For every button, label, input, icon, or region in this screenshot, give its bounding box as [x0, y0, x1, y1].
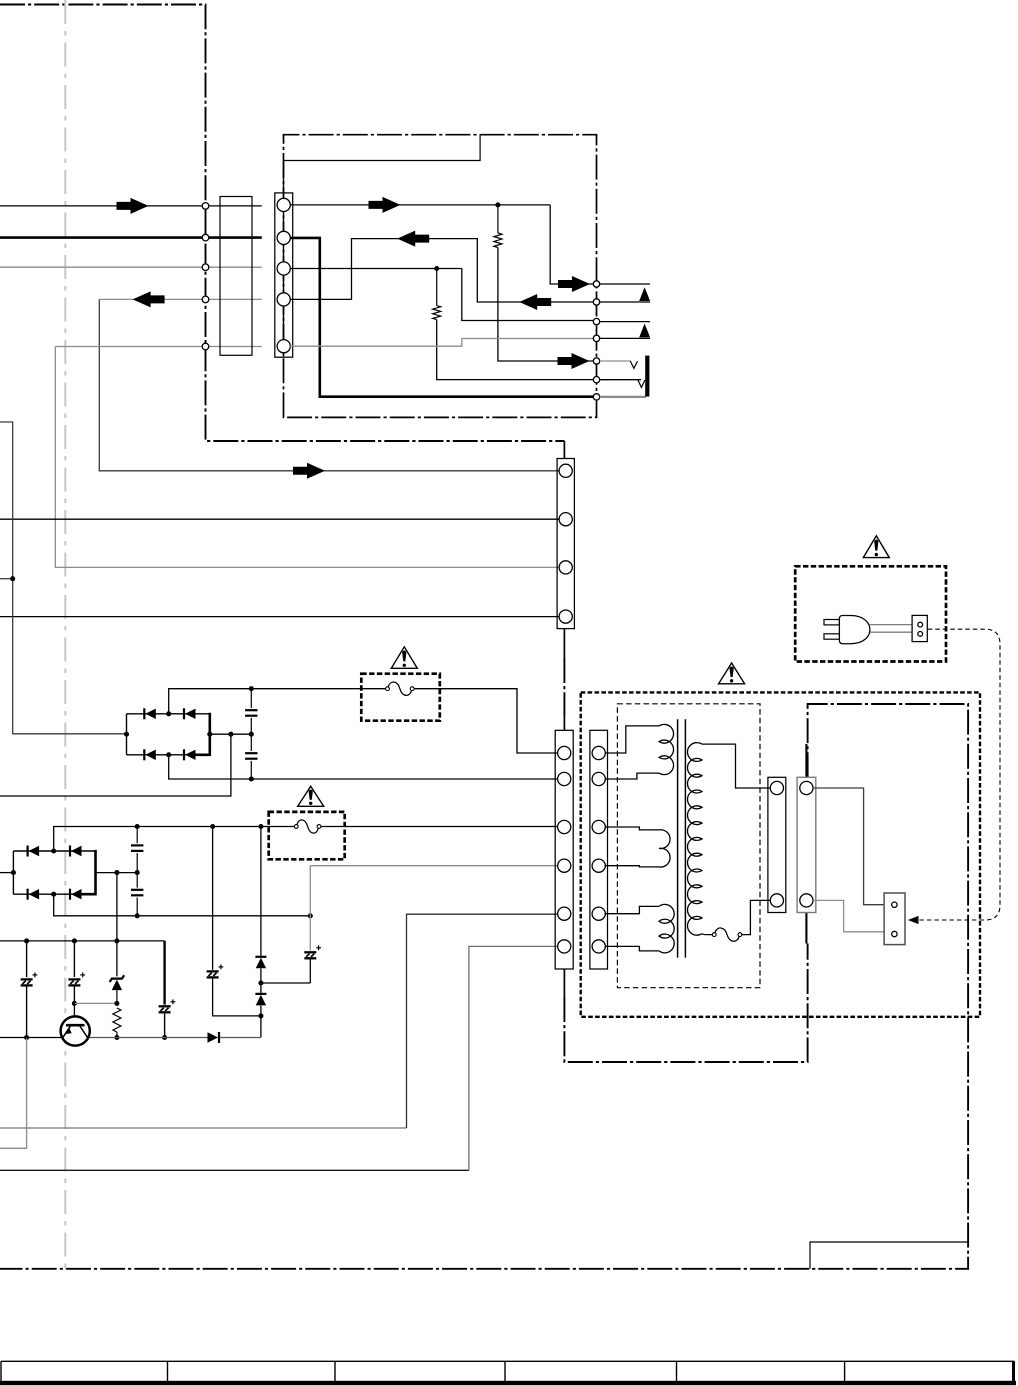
junction bottom rail x26: [24, 1035, 29, 1040]
wire thermal fuse to C2: [742, 900, 771, 934]
connector B pin 5: [592, 907, 605, 920]
junction C1 top: [249, 686, 254, 691]
diode D1c: [143, 749, 145, 760]
transformer T1 primary winding 1: [659, 724, 674, 774]
wire P1 riser and top to A5: [407, 914, 561, 1128]
wire c7 out: [600, 396, 646, 398]
table divider x676: [676, 1361, 678, 1381]
arrowhead on dashed wire: [908, 916, 919, 924]
connector B pin 2: [592, 772, 605, 785]
diode D1b: [183, 708, 185, 719]
wire P2 bottom segment: [0, 1169, 469, 1171]
capacitor C2: [245, 752, 257, 754]
wire C5 leads: [26, 941, 28, 1038]
capacitor C4: [131, 889, 143, 891]
antenna triangle 2: [639, 324, 650, 338]
zener ZD1 top lead: [116, 941, 118, 977]
junction C1C2 mid: [249, 732, 254, 737]
wire L2 input (thick): [0, 236, 262, 239]
wire bridge1 right edge thick: [194, 713, 212, 755]
wire boundary solid drop into G: [563, 441, 565, 459]
connector C pin 1: [770, 781, 783, 794]
junction bottom rail x137: [135, 913, 140, 918]
zener diode ZD1: [110, 975, 125, 982]
junction rail x137: [135, 824, 140, 829]
junction bridge1 left: [124, 732, 129, 737]
wire D2 to E gray: [813, 900, 884, 931]
diode D1d: [183, 749, 185, 760]
node chassis reference line (light dash-dot): [64, 0, 66, 1269]
sub-board edge pad c2: [593, 299, 599, 305]
wire L4 from connector F4 going left: [99, 298, 261, 300]
diode D6: [255, 993, 266, 995]
transformer T1 primary winding 3: [659, 904, 674, 952]
resistor R3: [113, 1008, 121, 1032]
wire AC return: [0, 734, 231, 796]
connector F pin 3: [277, 262, 290, 275]
connector A pin 6: [558, 940, 571, 953]
wire W1 from F1: [290, 204, 550, 206]
connector CN101 pin 1: [202, 203, 209, 210]
wire solid boundary stub below D: [805, 913, 807, 944]
connector D body: [797, 777, 816, 912]
caution mark PT board: [719, 663, 745, 684]
capacitor C6 electrolytic: [68, 978, 80, 980]
transistor Q1: [61, 1016, 90, 1045]
arrow left on W4 upper: [397, 231, 429, 247]
junction W1/R1: [495, 202, 500, 207]
wire D5-D6 link: [260, 969, 262, 994]
title reference box: [810, 1242, 968, 1269]
wire B1 to primary: [605, 726, 659, 753]
wire bridge2 top to fuse F2 rail to A3: [54, 827, 560, 852]
capacitor C5 electrolytic: [21, 978, 33, 980]
wire D6 down to rail corner: [260, 1006, 262, 1038]
connector A pin 1: [558, 746, 571, 759]
junction rail x212: [210, 824, 215, 829]
wire L3 input: [0, 266, 262, 268]
wire B3 to primary: [605, 827, 659, 830]
wire R1 lower lead to edge c5: [498, 248, 594, 362]
connector CN101 pin 3: [202, 264, 209, 271]
connector D pin 2: [800, 894, 813, 907]
junction top rail x26: [24, 938, 29, 943]
diode D2d: [69, 889, 71, 900]
wire C9 bottom lead: [309, 959, 311, 983]
connector G pin 1: [559, 464, 572, 477]
wire W3 from F3: [290, 268, 462, 270]
junction bridge1 bottom: [166, 752, 171, 757]
wire secondary top to C1: [702, 744, 771, 788]
sub-board edge pad c6: [593, 377, 599, 383]
wire c4 out: [600, 337, 650, 339]
table right edge thick: [1012, 1361, 1015, 1385]
wire gray riser x310 upper: [309, 866, 311, 951]
connector F body: [275, 193, 293, 357]
AC plug cord: [870, 624, 912, 626]
wire AC-b input: [0, 872, 13, 874]
arrow on wire L1: [117, 198, 149, 214]
fuse F2 element: [298, 825, 318, 828]
wire L4 down-and-right to connector G1: [99, 299, 560, 470]
wire c2 out: [600, 301, 650, 303]
wire solid boundary stub above D: [805, 744, 807, 777]
wire L5 down-right to G3: [55, 347, 560, 568]
arrow on W1: [369, 197, 401, 213]
wire P2 riser and top to A6: [469, 946, 560, 1170]
wire dashed plug to E: [918, 629, 1000, 920]
capacitor C3: [131, 844, 143, 846]
diode D2b: [69, 846, 71, 857]
table divider x335: [334, 1361, 336, 1381]
connector E pin 1: [892, 902, 897, 907]
wire C6 leads: [73, 941, 75, 1004]
AC plug cord pin 2: [918, 632, 923, 637]
wire thick drop x164: [163, 941, 165, 1005]
junction C3C4 mid: [135, 870, 140, 875]
connector CN101 pad column rect: [220, 197, 252, 356]
wire bridge2 frame: [13, 851, 95, 894]
wire W1 to edge c1: [550, 205, 593, 284]
wire R1 upper lead: [497, 205, 499, 233]
wire to G2: [0, 518, 560, 520]
wire W2 thick from F2 to edge c7: [290, 238, 593, 397]
wire main-board boundary G-to-A segment: [563, 658, 565, 716]
AC plug cord connector: [912, 615, 927, 641]
junction bottom rail x116: [114, 1035, 119, 1040]
connector F pin 4: [277, 293, 290, 306]
capacitor C1: [245, 709, 257, 711]
connector CN101 pin 5: [202, 343, 209, 350]
wire regulator top rail: [0, 940, 165, 942]
sub-board edge pad c5: [593, 358, 599, 364]
junction bottom rail x164: [162, 1035, 167, 1040]
transformer T1 primary winding 2: [659, 830, 670, 867]
junction diode chain mid1: [258, 980, 263, 985]
junction zener/resistor node: [114, 1001, 119, 1006]
connector G body: [557, 459, 574, 629]
junction diode chain mid2: [258, 1013, 263, 1018]
junction top rail x74: [72, 938, 77, 943]
table divider x1: [0, 1361, 2, 1381]
junction mid rail: [228, 732, 233, 737]
wire main-board dash-dot boundary top/left: [0, 5, 564, 442]
arrow into edge c1: [558, 276, 590, 292]
junction C2 bottom: [249, 776, 254, 781]
connector D pin 1: [800, 781, 813, 794]
wire B2 to primary: [605, 773, 659, 779]
wire W5 gray from F5 to edge c4: [290, 339, 594, 347]
wire x212 drop: [212, 827, 214, 970]
junction W3/R2: [434, 266, 439, 271]
connector B pin 3: [592, 820, 605, 833]
junction top rail x116: [114, 938, 119, 943]
table top line: [1, 1360, 1015, 1362]
connector G pin 4: [559, 610, 572, 623]
jack contact v2: [638, 380, 645, 388]
table divider x505: [504, 1361, 506, 1381]
table bottom bar: [0, 1381, 1016, 1385]
wire L1 input: [0, 205, 262, 207]
connector F pin 5: [277, 340, 290, 353]
connector C pin 2: [770, 894, 783, 907]
wire bridge2 right rail: [96, 872, 138, 874]
wire base link gray: [74, 1002, 117, 1004]
wire main-board boundary right/bottom: [0, 704, 968, 1269]
sub-board label notch: [284, 135, 481, 161]
wire chain tap right: [261, 982, 310, 984]
connector A pin 3: [558, 820, 571, 833]
wire bridge1 bottom rail to A2: [169, 755, 560, 779]
connector A pin 4: [558, 859, 571, 872]
diode D2a: [27, 846, 29, 857]
resistor R2: [433, 306, 441, 320]
junction rail2 x116: [114, 870, 119, 875]
connector G pin 2: [559, 513, 572, 526]
connector E pin 2: [892, 931, 897, 936]
connector F pin 2: [277, 231, 290, 244]
arrow into edge c5: [558, 353, 590, 369]
fuse F1 element: [389, 687, 411, 690]
connector B pin 4: [592, 859, 605, 872]
wire bridge1 mid rail: [210, 733, 252, 735]
junction bottom rail x310: [308, 913, 313, 918]
sub-board edge pad c1: [593, 281, 599, 287]
wire boundary solid into A top: [563, 716, 565, 730]
caution mark fuse F2: [298, 786, 324, 806]
connector CN101 pin 2: [202, 234, 209, 241]
wire c1 out: [600, 283, 650, 285]
arrow on wire L4: [133, 291, 165, 307]
sub-board edge pad c7: [593, 394, 599, 400]
connector C body: [768, 777, 786, 912]
wire B6 to primary: [605, 946, 659, 951]
connector B body: [590, 730, 608, 969]
sub-board edge pad c3: [593, 318, 599, 324]
wire main-board boundary below connector A: [564, 944, 807, 1063]
junction bridge2 bottom: [51, 892, 56, 897]
antenna triangle 1: [639, 287, 650, 301]
connector A pin 5: [558, 907, 571, 920]
wire D1 to E: [813, 788, 884, 905]
wire to G4: [0, 616, 560, 618]
AC plug prong 1: [824, 620, 839, 625]
AC plug prong 2: [824, 634, 839, 639]
connector E body: [884, 893, 905, 945]
junction bridge2 left: [11, 870, 16, 875]
capacitor C9 electrolytic: [304, 951, 316, 953]
wire gray to left edge: [0, 1038, 27, 1149]
caution mark AC plug: [863, 536, 889, 558]
wire c5 out: [600, 360, 631, 362]
sub-board left edge solid segment: [283, 161, 285, 358]
thermal fuse TF1: [715, 933, 738, 936]
connector CN101 pin 4: [202, 296, 209, 303]
wire x261 drop: [260, 827, 262, 957]
junction on AC-a: [10, 576, 15, 581]
diode D1a: [143, 708, 145, 719]
sub-board edge pad c4: [593, 335, 599, 341]
wire stub AC-a: [0, 422, 127, 734]
junction bridge2 top: [51, 848, 56, 853]
jack sleeve bar: [645, 356, 649, 397]
wire boundary solid below G: [563, 629, 565, 658]
wire C4 leads: [136, 873, 138, 916]
wire bridge2 bottom rail: [54, 894, 311, 916]
wire L5 left segment: [55, 346, 261, 348]
wire R2 lower lead to edge c6: [437, 320, 594, 380]
wire stub tap: [0, 578, 13, 580]
connector B pin 6: [592, 940, 605, 953]
AC plug cord pin 1: [918, 622, 923, 627]
wire Q1 base lead: [73, 1003, 75, 1025]
connector F pin 1: [277, 198, 290, 211]
caution mark fuse F1: [391, 647, 417, 669]
junction bridge1 right: [207, 732, 212, 737]
wire c3 out: [600, 321, 650, 323]
table divider x844: [844, 1361, 846, 1381]
wire C3 leads: [136, 827, 138, 873]
wire C2 leads: [250, 734, 252, 779]
junction rail x261: [258, 824, 263, 829]
wire W4 from F4 to edge c2: [290, 239, 594, 302]
resistor R1: [494, 233, 502, 248]
diode D5: [255, 956, 266, 958]
connector A pin 2: [558, 772, 571, 785]
PT power-transformer board box (dashed): [581, 692, 980, 1016]
connector A body: [555, 730, 573, 969]
capacitor C7 electrolytic: [159, 1005, 171, 1007]
wire W3 to edge c3: [462, 269, 594, 321]
wire bridge1 frame: [127, 714, 210, 755]
wire P1 gray segment: [0, 1127, 407, 1129]
capacitor C8 electrolytic: [207, 970, 219, 972]
transformer T1 secondary winding: [688, 743, 702, 936]
wire C7 bottom lead: [164, 1013, 166, 1037]
wire boundary solid below A: [563, 969, 565, 997]
zener ZD1 bottom lead: [116, 990, 118, 1003]
wire secondary bottom to thermal fuse: [702, 933, 712, 936]
arrow on wire to G1: [293, 463, 325, 479]
AC plug body: [839, 616, 870, 644]
connector B pin 1: [592, 746, 605, 759]
wire bottom rail left: [0, 1037, 61, 1039]
junction base node: [72, 1001, 77, 1006]
wire gray rail to A4: [310, 865, 560, 867]
arrow left on W4 at c2: [519, 294, 551, 310]
table divider x167: [167, 1361, 169, 1381]
wire bridge2 right edge thick: [80, 850, 97, 894]
fuse F1 safety box (dashed): [361, 674, 440, 721]
fuse F2 safety box (dashed): [269, 812, 345, 859]
wire bottom rail mid: [90, 1037, 209, 1039]
wire x116 drop: [116, 873, 118, 941]
wire B4 to primary: [605, 866, 659, 867]
wire bottom rail after D3: [219, 1037, 261, 1039]
diode D2c: [27, 889, 29, 900]
AC plug safety box (dashed): [795, 566, 946, 661]
sub-board boundary box: [284, 135, 597, 418]
transformer T1 core: [677, 719, 679, 957]
diode D3: [208, 1032, 219, 1042]
wire R3 bottom lead: [116, 1032, 118, 1038]
wire c6 out: [600, 379, 641, 381]
wire B5 to primary: [605, 906, 659, 913]
junction bridge1 top: [166, 711, 171, 716]
wire bridge1 top to fuse F1 rail: [169, 689, 560, 753]
connector G pin 3: [559, 561, 572, 574]
transformer T1 outline box (thin dashed): [617, 704, 760, 988]
wire R2 upper lead: [436, 269, 438, 306]
wire C8 bottom lead: [213, 978, 261, 1016]
wire C1 leads: [250, 689, 252, 735]
jack contact v1: [630, 361, 637, 368]
